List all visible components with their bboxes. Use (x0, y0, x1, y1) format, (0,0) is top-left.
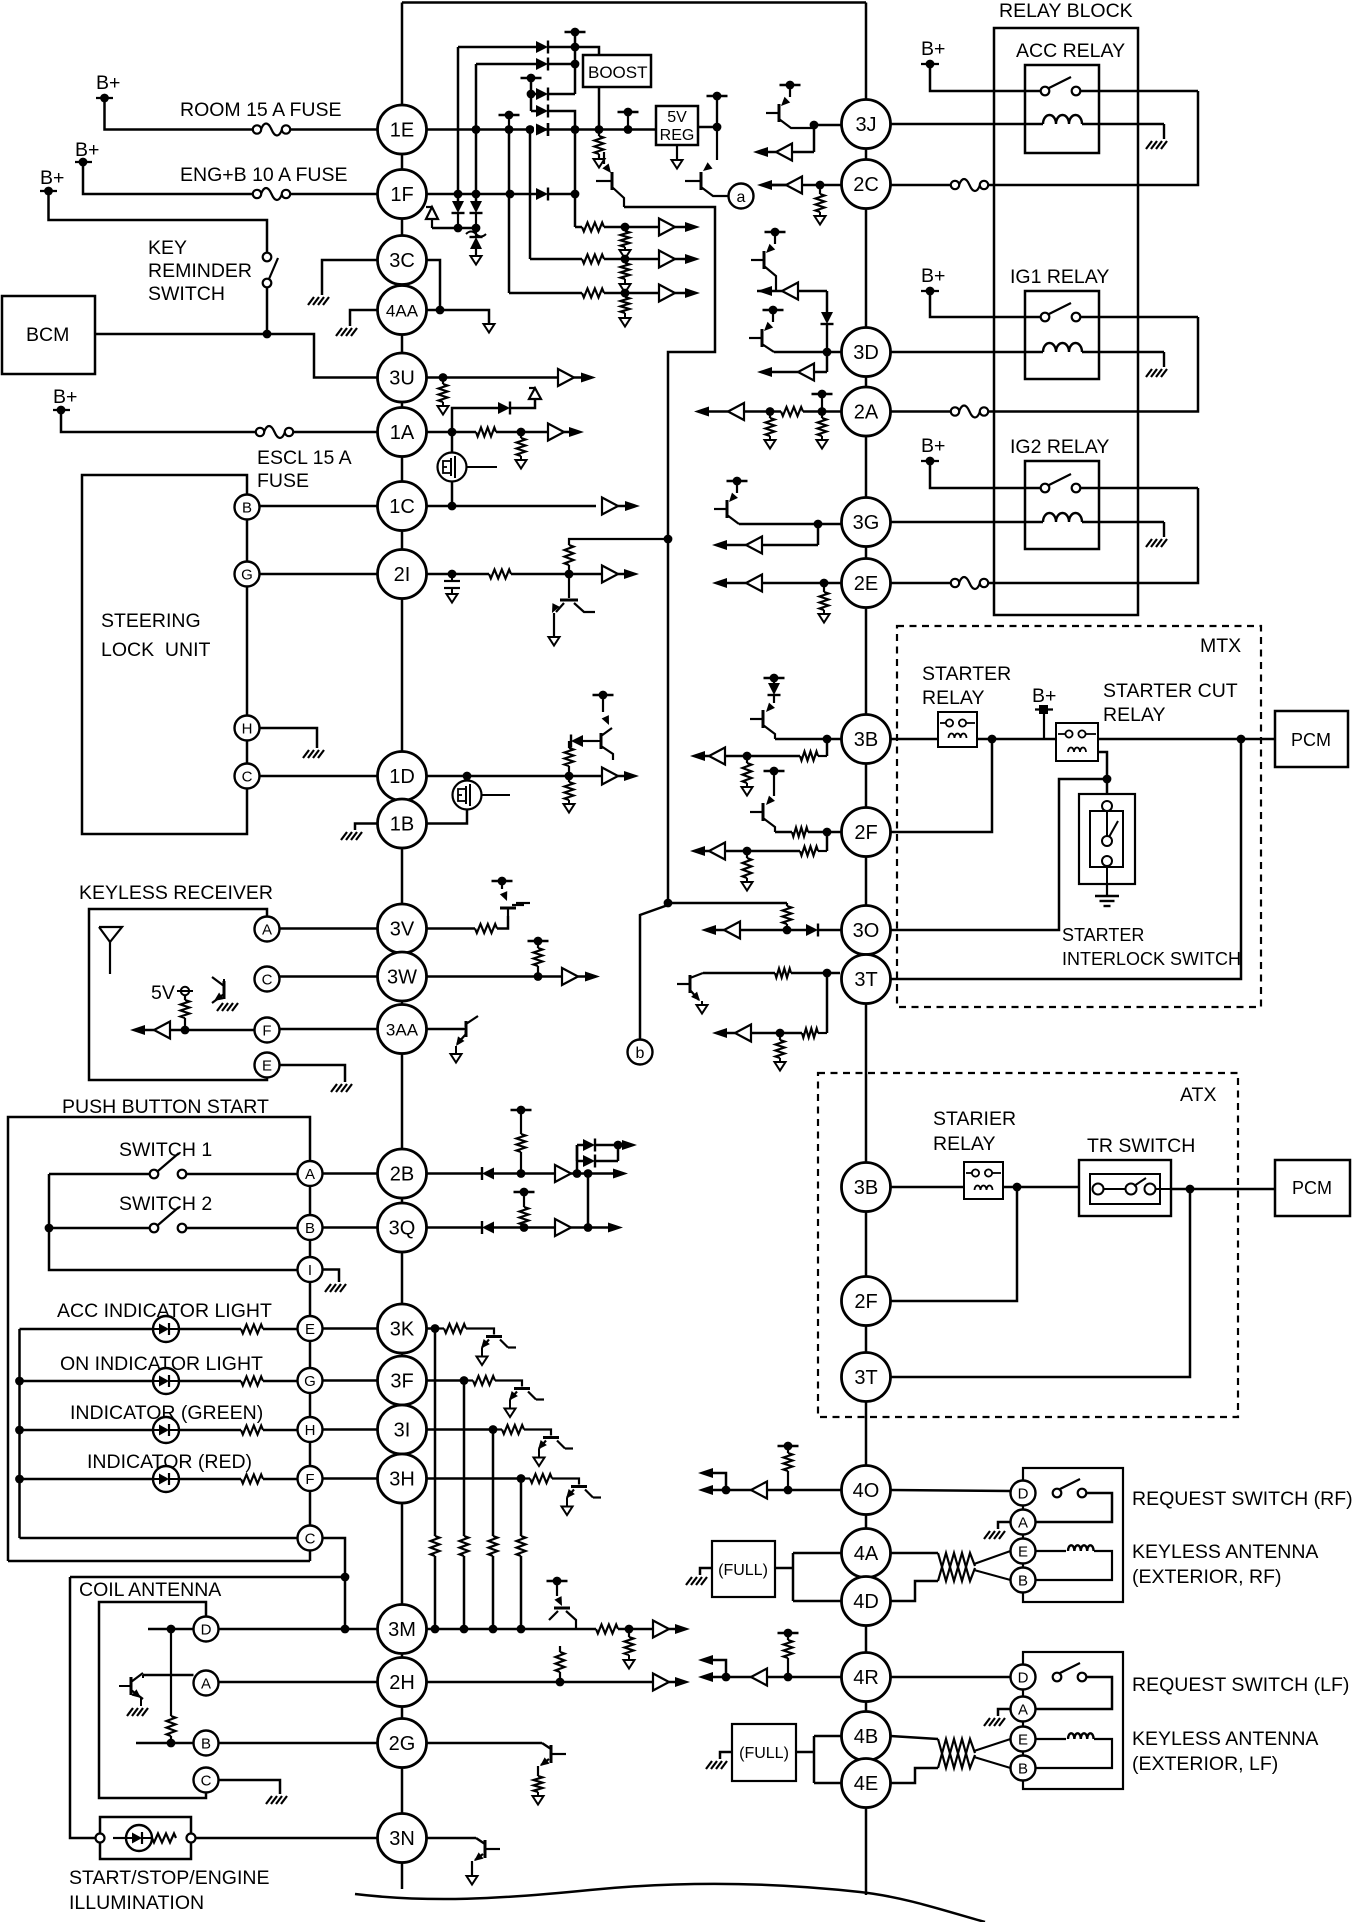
arrow 2A monitor (694, 403, 744, 420)
svg-text:C: C (262, 972, 273, 989)
wire line3 to triangle (604, 289, 659, 298)
pin C coil antenna (194, 1768, 219, 1793)
wire 3G input (739, 520, 842, 529)
wire diode row 1 (458, 46, 536, 49)
resistor 1D pull-down (565, 776, 574, 804)
ground 1B (341, 832, 362, 840)
wire GREEN indicator (15, 1426, 153, 1435)
diode 1D cluster (571, 735, 598, 748)
svg-text:(FULL): (FULL) (718, 1562, 768, 1579)
resistor 3W pull-up (534, 941, 543, 977)
transistor Q7 3V (500, 890, 524, 916)
svg-text:C: C (201, 1773, 212, 1790)
wire starter relay to TR switch (1003, 1183, 1079, 1192)
box starter interlock inner (1090, 811, 1123, 867)
wire ON LED to resistor (179, 1380, 241, 1383)
wire indicator common rail (18, 1329, 21, 1538)
label MTX (1200, 635, 1241, 657)
wire IG2 contact to 2E fuse (985, 488, 1198, 583)
wire 4B to twisted pair LF (891, 1736, 939, 1739)
arrow 1C out (618, 501, 640, 511)
svg-text:KEY: KEY (148, 237, 187, 259)
buffer triangle 3Q (555, 1219, 571, 1236)
svg-text:B+: B+ (921, 265, 945, 287)
connector pin 4A right bus y=1553 (842, 1529, 891, 1578)
wire buffer line3 (509, 292, 582, 295)
resistor 3I series (493, 1425, 551, 1436)
arrow Q8 emitter (451, 1046, 462, 1063)
wire twisted pair to B (974, 1570, 1011, 1580)
wire keyless F internal with dot (170, 1026, 255, 1035)
wire 3O to interlock (891, 779, 1108, 930)
wire steering B to 1C (260, 505, 378, 508)
node B+ IG2 relay (921, 435, 945, 465)
svg-text:2H: 2H (389, 1672, 415, 1694)
svg-text:D: D (1018, 1670, 1029, 1687)
label KEYLESS ANTENNA RF (1132, 1541, 1318, 1588)
wire 3D monitor drop (826, 352, 829, 372)
label 5V (151, 982, 175, 1004)
connector pin 3K (378, 1304, 427, 1353)
wire row1 to BOOST (548, 43, 599, 55)
box RELAY BLOCK (994, 28, 1138, 615)
svg-text:3N: 3N (389, 1828, 415, 1850)
wire 3B input (775, 735, 842, 744)
wire twisted LF to E (974, 1739, 1011, 1751)
pin I push button (298, 1257, 323, 1282)
svg-text:F: F (262, 1023, 271, 1040)
wire 3K output (427, 1324, 440, 1333)
svg-text:IG1 RELAY: IG1 RELAY (1010, 266, 1109, 288)
svg-text:4B: 4B (854, 1726, 878, 1748)
connector pin 3T right bus y=979 (842, 955, 891, 1004)
wire 2I to buffer (511, 570, 602, 579)
svg-text:A: A (305, 1166, 315, 1183)
svg-text:TR SWITCH: TR SWITCH (1087, 1135, 1195, 1157)
wire keyless F to 3AA (280, 1028, 378, 1031)
resistor 3T monitor (751, 1029, 827, 1038)
pin A request LF (1011, 1697, 1036, 1722)
label REQUEST SWITCH (RF) (1132, 1488, 1353, 1510)
transistor Q2 to node a (685, 96, 728, 196)
label FULL LF (739, 1745, 789, 1762)
transistor Q11 3N (472, 1838, 500, 1876)
wire row3 to rail (548, 93, 575, 96)
arrow 1D out (618, 771, 639, 781)
wire switch1 to pin A (187, 1173, 298, 1176)
box PUSH BUTTON START (8, 1117, 310, 1561)
box starter interlock outer (1079, 794, 1135, 884)
node 5V supply circle (177, 987, 193, 995)
wire fuse to 2C (891, 184, 952, 187)
connector pin 3C (378, 236, 427, 285)
resistor 3T series (775, 969, 791, 978)
node T-stub 4O (778, 1442, 799, 1451)
pin C steering lock (235, 764, 260, 789)
wire keyless E to ground (280, 1065, 346, 1082)
svg-text:B: B (305, 1220, 315, 1237)
connector pin 2A right bus y=411.5 (842, 387, 891, 436)
wire rail 458 down (457, 47, 460, 201)
arrow 2C monitor (757, 177, 802, 194)
svg-text:STARTER: STARTER (1062, 925, 1144, 945)
pin A keyless receiver (255, 917, 280, 942)
label BCM (26, 324, 69, 346)
wire ON indicator (15, 1377, 153, 1386)
node b (628, 1040, 653, 1065)
svg-text:ROOM 15 A FUSE: ROOM 15 A FUSE (180, 99, 341, 121)
pin A request RF (1011, 1510, 1036, 1535)
diode 1A branch (498, 402, 510, 415)
LED red indicator (153, 1466, 179, 1492)
wire 2F to relay junction (ATX) (891, 1187, 1018, 1301)
node B+ starter cut (1032, 685, 1056, 714)
svg-text:3T: 3T (854, 969, 877, 991)
buffer triangle 4O (751, 1482, 767, 1499)
resistor RED indicator (241, 1475, 263, 1484)
wire 3O pull-up line (668, 902, 787, 905)
wire request LF to A (1034, 1677, 1112, 1709)
arrow 3F emitter ground (505, 1409, 516, 1418)
buffer triangle 2I (602, 566, 618, 583)
connector pin 3AA (378, 1005, 427, 1054)
pin H steering lock (235, 716, 260, 741)
node B+ battery feed (ROOM fuse) (96, 72, 120, 102)
svg-text:A: A (262, 922, 272, 939)
coil ACC relay (891, 115, 1165, 124)
svg-text:RELAY BLOCK: RELAY BLOCK (999, 0, 1133, 22)
buffer triangle 1D (602, 768, 618, 785)
node T-stub 2F (764, 767, 785, 776)
label ACC INDICATOR LIGHT (57, 1300, 272, 1322)
wire pin I to ground (323, 1270, 340, 1283)
arrow 3K emitter ground (477, 1357, 488, 1366)
transistor Q1 near 5V REG (596, 152, 624, 207)
coil IG2 relay (891, 513, 1165, 522)
resistor GREEN indicator (241, 1426, 263, 1435)
arrow 3H emitter ground (562, 1507, 573, 1516)
svg-text:3D: 3D (853, 342, 879, 364)
wire 2I output (427, 570, 490, 579)
connector pin 3N (378, 1814, 427, 1863)
transistor Q8 3AA (456, 1016, 478, 1046)
wire left bus vertical (401, 3, 404, 1890)
node T-stub Q5 feed (593, 691, 614, 725)
wire 3M to triangle (618, 1625, 653, 1634)
svg-text:MTX: MTX (1200, 635, 1241, 657)
transistor Q9 3M (549, 1581, 576, 1629)
label COIL ANTENNA (79, 1579, 221, 1601)
wire 3Q output (427, 1226, 483, 1229)
connector pin 3D right bus y=352 (842, 328, 891, 377)
node T-stub top rail (565, 28, 586, 37)
wire 3U output (427, 373, 559, 382)
label STEERING LOCK UNIT (101, 610, 211, 661)
wire 4O input (722, 1486, 842, 1495)
wire pin E to 3K (323, 1327, 378, 1330)
diode ladder rung2 (583, 1155, 595, 1168)
connector pin 2I (378, 550, 427, 599)
connector pin 4R right bus y=1677 (842, 1653, 891, 1702)
svg-text:B+: B+ (40, 167, 64, 189)
buffer triangle 3U (558, 369, 574, 386)
resistor 3M series (596, 1625, 618, 1634)
resistor 4O pull-up (784, 1446, 793, 1490)
arrow 3O monitor (701, 922, 740, 939)
label PCM (MTX) (1291, 730, 1331, 750)
connector pin 2F right bus y=832 (842, 808, 891, 857)
resistor 2H link (556, 1646, 577, 1682)
transistor Q 3I (538, 1438, 573, 1458)
wire 3C ground left (322, 260, 378, 295)
wire line1 to triangle (604, 223, 659, 232)
wire rail 509 to line3 (508, 130, 511, 294)
wire switch2 to pin B (187, 1227, 298, 1230)
wire 3G monitor drop (817, 524, 820, 545)
coil keyless antenna LF (1034, 1733, 1112, 1768)
node T-stub right of diode 1E (618, 108, 639, 130)
ground IG1 relay (1146, 369, 1167, 377)
wire diode row 3 (531, 93, 536, 96)
wire 1A diode branch (452, 408, 498, 432)
wire rung1 out (595, 1141, 631, 1150)
svg-text:4D: 4D (853, 1591, 879, 1613)
wire pin F to 3H (323, 1477, 378, 1480)
arrow 4O straight (698, 1485, 726, 1495)
wire ACC contact to 2C fuse (985, 91, 1198, 185)
resistor ACC indicator (241, 1325, 263, 1334)
wire 4AA ground left (350, 310, 378, 326)
wire rail 575 to line1 (574, 194, 577, 227)
arrow 2C pull-down (815, 216, 826, 225)
wire torn-edge wavy line (355, 1884, 985, 1922)
wire coil D to 3M (219, 1628, 378, 1631)
transistor Q 3H (566, 1487, 601, 1507)
pin H push button (298, 1417, 323, 1442)
svg-text:STARIER: STARIER (933, 1108, 1016, 1130)
connector pin 3G right bus y=522 (842, 498, 891, 547)
svg-text:A: A (1018, 1702, 1028, 1719)
resistor 2A pull-down 2 (818, 412, 827, 441)
svg-text:STARTER: STARTER (922, 663, 1011, 685)
box ATX dashed (818, 1073, 1238, 1417)
arrow 2H out (669, 1677, 690, 1687)
buffer triangle line1 (659, 219, 675, 236)
wire 1C output (427, 502, 597, 511)
svg-text:3H: 3H (389, 1469, 415, 1491)
wire 4R input (722, 1673, 842, 1682)
arrow 4R straight (698, 1672, 726, 1682)
wire IG2 coil to ground (1163, 522, 1165, 537)
svg-text:3G: 3G (853, 512, 880, 534)
label RELAY BLOCK (999, 0, 1133, 22)
svg-text:3C: 3C (389, 250, 415, 272)
wire 3V output (427, 927, 476, 930)
svg-text:3W: 3W (387, 967, 417, 989)
wire GREEN resistor to pin H (263, 1429, 297, 1432)
wire A to ground LF (998, 1709, 1011, 1716)
ground request LF (984, 1718, 1005, 1726)
connector pin 3V (378, 904, 427, 953)
label ENG+B 10 A FUSE (180, 164, 347, 186)
wire BCM to pin 3U (95, 330, 377, 378)
wire row2 to rail (548, 60, 579, 69)
wire 3H output (427, 1474, 526, 1483)
switch starter interlock (1102, 801, 1118, 866)
ground coil antenna transistor (127, 1698, 148, 1716)
wire top border of control module (402, 1, 866, 4)
node T-stub above 5V REG out (707, 92, 728, 127)
box BOOST (583, 55, 651, 87)
mosfet Q3 ESCL (438, 432, 498, 506)
arrow Q11 ground (467, 1876, 478, 1885)
svg-text:1C: 1C (389, 496, 415, 518)
resistor pull-down under BOOST node (595, 130, 604, 160)
ground keyless transistor (217, 1003, 238, 1011)
svg-text:ILLUMINATION: ILLUMINATION (69, 1892, 204, 1914)
resistor 3T pull-down (776, 1033, 785, 1062)
node T-stub 3M transistor (547, 1577, 568, 1586)
node T-stub 3B (764, 674, 785, 683)
arrow 3T monitor (712, 1025, 751, 1042)
svg-text:3Q: 3Q (389, 1218, 416, 1240)
resistor 3B pull-down (743, 756, 752, 787)
connector pin 1D (378, 752, 427, 801)
box START/STOP illumination (100, 1817, 191, 1859)
arrow output line2 (675, 254, 700, 264)
wire 3Q diode to buffer (494, 1223, 555, 1232)
fuse 2E circuit (951, 577, 988, 589)
wire 2B buffer out (571, 1169, 622, 1178)
wire 5V REG output (698, 123, 721, 132)
wire B+ to IG1 contact (930, 291, 1040, 317)
wire interlock to ground (1106, 866, 1108, 895)
arrow 2I out (618, 569, 639, 579)
wire 1F internal line (427, 190, 537, 199)
wire rail 3I to 3M (489, 1430, 498, 1634)
svg-text:3B: 3B (854, 729, 878, 751)
svg-text:REQUEST SWITCH (RF): REQUEST SWITCH (RF) (1132, 1488, 1353, 1510)
wire 4D to twisted pair (891, 1581, 939, 1601)
svg-text:B+: B+ (1032, 685, 1056, 707)
wire rail to pin C (20, 1537, 298, 1540)
label STARTER CUT RELAY (1103, 680, 1238, 726)
connector pin 1A (378, 408, 427, 457)
wire steering G to 2I (260, 573, 378, 576)
resistor divider 3-gnd (621, 297, 630, 318)
label IG2 RELAY (1010, 436, 1109, 458)
wire B+ to relay wire (1043, 714, 1045, 739)
wire diode 476 to bar (475, 213, 477, 228)
arrow 2A pd2 (817, 440, 828, 449)
pin D coil antenna (194, 1617, 219, 1642)
svg-text:3T: 3T (854, 1367, 877, 1389)
ground coil antenna C (266, 1796, 287, 1804)
transistor keyless receiver internal (212, 977, 224, 1003)
transistor Q18 3T (677, 973, 703, 1001)
connector pin 2E right bus y=583 (842, 559, 891, 608)
wire buffer line2 (530, 258, 582, 261)
wire rail 3F to 3M (460, 1381, 469, 1634)
arrow divider 2-3 (620, 284, 631, 293)
arrow output line3 (675, 288, 700, 298)
svg-text:4E: 4E (854, 1773, 878, 1795)
wire top rail vertical (574, 32, 577, 94)
svg-text:E: E (305, 1321, 315, 1338)
node B+ ACC relay (921, 38, 945, 68)
svg-text:RELAY: RELAY (1103, 704, 1166, 726)
box PCM (ATX) (1275, 1160, 1350, 1216)
label PUSH BUTTON START (62, 1096, 269, 1118)
box PCM (MTX) (1275, 711, 1348, 767)
resistor start/stop illumination (152, 1834, 176, 1843)
svg-text:2F: 2F (854, 1291, 877, 1313)
svg-text:INTERLOCK SWITCH: INTERLOCK SWITCH (1062, 949, 1241, 969)
diode 2B series (482, 1167, 494, 1180)
pin E antenna RF (1011, 1539, 1036, 1564)
wire row3 feed vertical (527, 78, 536, 111)
label ATX (1180, 1084, 1216, 1106)
ground keyless E (331, 1084, 352, 1092)
wire buffer line1 (575, 226, 582, 229)
node a (729, 184, 754, 209)
arrow 3W out (578, 972, 600, 982)
capacitor 2I (444, 574, 460, 594)
buffer triangle line2 (659, 251, 675, 268)
svg-text:1D: 1D (389, 766, 415, 788)
switch TR (1093, 1178, 1156, 1195)
svg-text:PUSH BUTTON START: PUSH BUTTON START (62, 1096, 269, 1118)
wire coil D internal (148, 1625, 194, 1634)
svg-text:SWITCH: SWITCH (148, 283, 225, 305)
pin G steering lock (235, 562, 260, 587)
connector pin 4O right bus y=1490 (842, 1466, 891, 1515)
svg-text:3B: 3B (854, 1177, 878, 1199)
wire 3T to PCM line (891, 739, 1242, 979)
wire 4A to twisted pair (891, 1552, 939, 1555)
node B+ battery feed (ESCL fuse) (53, 386, 77, 414)
svg-text:RELAY: RELAY (922, 687, 985, 709)
wire TR switch to PCM (1156, 1185, 1276, 1194)
svg-text:3J: 3J (855, 114, 876, 136)
label FULL RF (718, 1562, 768, 1579)
svg-text:2B: 2B (390, 1164, 414, 1186)
svg-text:B+: B+ (921, 38, 945, 60)
ground 4AA (336, 328, 357, 336)
resistor 2B pull-up (517, 1110, 526, 1174)
label KEYLESS RECEIVER (79, 882, 273, 904)
node illumination left terminal (96, 1834, 105, 1843)
svg-text:I: I (308, 1262, 312, 1279)
wire 3V to transistor (497, 916, 508, 929)
pin B antenna RF (1011, 1568, 1036, 1593)
wire switch rail to pin I (49, 1174, 297, 1270)
box STEERING LOCK UNIT (82, 475, 247, 834)
wire FULL RF ground (700, 1568, 712, 1575)
wire BOOST to 1E line (598, 87, 601, 130)
wire 3B to starter relay (ATX) (891, 1186, 965, 1189)
buffer triangle 2H (653, 1674, 669, 1691)
wire 1B ground (355, 824, 378, 831)
pin F push button (298, 1466, 323, 1491)
wire starter relay to cut relay (977, 735, 1056, 744)
wire keyless C to 3W (280, 975, 378, 978)
pin B steering lock (235, 495, 260, 520)
label IG1 RELAY (1010, 266, 1109, 288)
label STARTER INTERLOCK SWITCH (1062, 925, 1241, 969)
wire twisted pair to E (974, 1551, 1011, 1564)
svg-text:REQUEST SWITCH (LF): REQUEST SWITCH (LF) (1132, 1674, 1349, 1696)
